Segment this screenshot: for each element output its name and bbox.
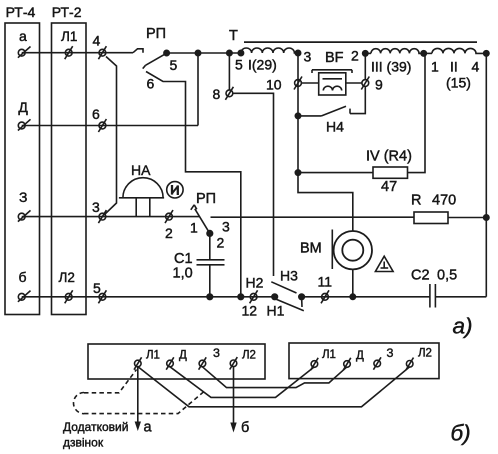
svg-text:б: б (241, 420, 249, 436)
svg-text:2: 2 (165, 225, 173, 241)
terminal block 1 (88, 344, 265, 379)
wire row З (22, 216, 200, 218)
buzzer BF (312, 50, 352, 95)
wire 10 to BF (302, 82, 319, 84)
capacitor C2 (411, 268, 457, 308)
node a of PT-4 (18, 28, 31, 58)
switch H3 H1 (267, 268, 305, 319)
connector box PT-2 (52, 23, 87, 315)
svg-text:Д: Д (179, 350, 187, 362)
node РП6 bus junction (238, 294, 244, 300)
wire Л1 to Л2 prime (138, 367, 410, 407)
node Д of block 1 (166, 350, 187, 370)
terminal 4 (93, 33, 107, 60)
node Д of block 2 (343, 350, 364, 370)
node coil I start 5 (238, 50, 243, 55)
svg-text:12: 12 (242, 303, 258, 319)
wire BM to bus (352, 269, 354, 296)
svg-text:З: З (19, 189, 27, 205)
wire right side vertical (485, 53, 487, 296)
node R right junction (484, 215, 489, 220)
svg-text:Л2: Л2 (242, 350, 256, 362)
node 3 junction (295, 49, 311, 65)
resistor IV R4 (366, 149, 412, 196)
svg-text:З: З (213, 348, 220, 360)
svg-text:2: 2 (351, 48, 359, 64)
svg-text:5: 5 (170, 57, 178, 73)
svg-text:РП: РП (196, 191, 216, 207)
svg-text:5: 5 (235, 57, 243, 73)
svg-text:Додатковий: Додатковий (63, 420, 128, 434)
wire C2 to right vertical (435, 296, 486, 298)
terminal 12 H2 (242, 275, 264, 319)
node Л2 of PT-2 (59, 270, 75, 303)
winding II of transformer (424, 48, 487, 90)
node З of PT-4 (18, 189, 31, 222)
microphone BM (300, 230, 372, 270)
svg-text:З: З (387, 348, 394, 360)
node 1 junction (421, 51, 439, 75)
terminal 9 (361, 77, 383, 93)
svg-text:Н3: Н3 (280, 268, 298, 284)
svg-text:РТ-2: РТ-2 (52, 4, 82, 20)
svg-text:R470: R470 (411, 193, 456, 209)
wire row a right of switch (167, 52, 241, 54)
svg-text:дзвінок: дзвінок (63, 436, 104, 450)
svg-text:Л1: Л1 (322, 349, 336, 361)
wire б lead (230, 367, 249, 437)
connector box PT-4 (5, 23, 40, 315)
svg-text:1: 1 (431, 59, 439, 75)
terminal 3 (92, 199, 106, 223)
terminal 2 (165, 210, 173, 241)
capacitor C1 (173, 236, 225, 297)
svg-text:II: II (450, 59, 458, 75)
node Л2 of block 2 (406, 348, 432, 371)
svg-text:IV (R4): IV (R4) (366, 149, 412, 165)
node З of block 1 (199, 348, 220, 370)
svg-text:3: 3 (304, 49, 312, 65)
wire 2 to 9 (364, 53, 366, 79)
svg-text:Л2: Л2 (418, 348, 432, 360)
svg-text:б: б (19, 269, 27, 285)
terminal 10 (266, 77, 302, 93)
additional bell symbol dashed (73, 370, 204, 414)
svg-text:РТ-4: РТ-4 (6, 4, 36, 20)
bell symbol circle (167, 182, 183, 198)
node Л1 of PT-2 (61, 29, 77, 59)
svg-text:4: 4 (472, 59, 480, 75)
svg-text:а: а (19, 28, 27, 44)
warning triangle symbol (375, 256, 393, 271)
svg-text:47: 47 (381, 179, 397, 195)
wire a lead (135, 367, 153, 436)
svg-text:РП: РП (146, 26, 166, 42)
svg-text:8: 8 (213, 86, 221, 102)
wire R to right vertical (448, 217, 486, 219)
terminal 11 (318, 274, 333, 304)
wire BF to 9 (346, 82, 362, 84)
svg-text:Т: Т (229, 28, 238, 44)
svg-text:Д: Д (18, 99, 28, 115)
svg-text:1,0: 1,0 (173, 266, 193, 282)
wire row a (22, 52, 133, 54)
terminal 5 (93, 280, 106, 303)
winding I of transformer (235, 48, 298, 73)
wire contact 3 to resistor R (211, 216, 415, 218)
node Л2 of block 1 (230, 350, 256, 370)
svg-text:б): б) (451, 421, 471, 446)
node Л1 of block 1 (134, 350, 160, 370)
svg-text:6: 6 (147, 76, 155, 92)
wire to resistor IV R4 (298, 172, 373, 174)
wire node 3 vertical (297, 53, 299, 173)
node Л1 of block 2 (311, 349, 336, 370)
svg-text:9: 9 (375, 77, 383, 93)
node 5 junction (164, 50, 169, 55)
wire link 4 to 3 (104, 57, 117, 216)
svg-text:Н4: Н4 (326, 119, 344, 135)
terminal 8 (213, 86, 234, 102)
terminal 6 (92, 106, 106, 132)
wire З to Д prime (202, 367, 347, 388)
node Д link junction (195, 50, 200, 55)
node R4 junction (295, 170, 300, 175)
wire node R4 to BM (298, 173, 353, 232)
svg-text:10: 10 (266, 77, 282, 93)
svg-text:III (39): III (39) (371, 59, 411, 75)
svg-text:3: 3 (92, 199, 100, 215)
wire 9 to H4 (350, 87, 365, 114)
relay switch РП lower (190, 191, 230, 251)
svg-text:Н1: Н1 (267, 303, 285, 319)
node 8 junction (227, 50, 232, 55)
node 4 junction (484, 51, 489, 56)
node б of PT-4 (18, 269, 31, 302)
svg-text:4: 4 (93, 33, 101, 49)
node З of block 2 (373, 348, 393, 370)
node BM junction (350, 294, 355, 299)
node 2 junction (351, 48, 368, 64)
contact 6 wire of РП upper (146, 72, 241, 298)
wire terminal 8 to H3 (233, 93, 274, 276)
transformer T core (229, 28, 477, 44)
svg-text:6: 6 (92, 106, 100, 122)
svg-text:Д: Д (356, 350, 364, 362)
svg-text:(15): (15) (446, 75, 471, 91)
svg-text:а: а (144, 420, 153, 436)
svg-text:НА: НА (131, 162, 151, 178)
switch H4 (295, 106, 350, 134)
svg-text:BF: BF (325, 50, 344, 66)
svg-text:3: 3 (222, 219, 230, 235)
svg-text:Л2: Л2 (59, 270, 75, 285)
wire Д link vertical (197, 53, 199, 126)
svg-text:ВМ: ВМ (300, 241, 322, 257)
svg-text:а): а) (453, 314, 473, 339)
wire bus row б right (302, 296, 430, 298)
svg-text:11: 11 (318, 274, 333, 290)
svg-text:I(29): I(29) (248, 57, 277, 73)
node Д of PT-4 (18, 99, 31, 131)
node 2 of РП lower (207, 231, 213, 237)
contact 4 of switch РП fixed end (133, 49, 143, 53)
resistor R 470 (411, 193, 456, 224)
terminal block 2 (289, 343, 439, 379)
wire to terminal 8 (228, 53, 230, 90)
svg-text:Л1: Л1 (146, 350, 160, 362)
svg-text:Н2: Н2 (246, 275, 264, 291)
wire Д to Л1 prime (170, 367, 314, 398)
svg-text:1: 1 (190, 220, 198, 236)
svg-text:2: 2 (217, 235, 225, 251)
relay switch РП upper (143, 26, 178, 92)
label additional bell (63, 420, 128, 450)
winding III of transformer (365, 49, 423, 75)
svg-text:Л1: Л1 (61, 29, 77, 44)
node C1 bus junction (207, 294, 213, 300)
wire bus row б left (22, 296, 275, 298)
wire R4 to node 1 (408, 53, 426, 172)
wire row Д (22, 125, 198, 127)
bell HA (119, 162, 164, 217)
